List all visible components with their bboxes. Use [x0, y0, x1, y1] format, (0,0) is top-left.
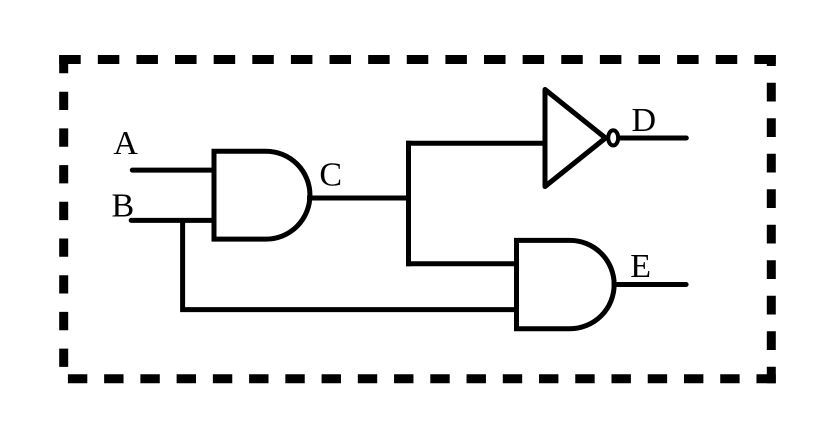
wire C to inverter input [406, 141, 545, 146]
svg-text:B: B [112, 187, 135, 224]
wire C branch vertical [406, 141, 411, 266]
wire B branch to U3 lower input [183, 218, 517, 310]
dashed frame top edge [59, 55, 776, 64]
wire C to U3 upper input [406, 261, 517, 266]
inverter U2 output bubble [608, 130, 618, 145]
AND gate U1 [214, 151, 310, 239]
dashed frame right edge [767, 55, 776, 383]
svg-text:A: A [113, 125, 138, 162]
AND gate U3 [517, 240, 615, 328]
svg-text:C: C [319, 156, 342, 193]
output wire D [620, 136, 687, 141]
dashed frame bottom edge [68, 374, 776, 383]
inverter U2 triangle [545, 90, 606, 187]
svg-text:E: E [630, 248, 651, 285]
input wire A [132, 168, 214, 173]
svg-text:D: D [632, 102, 657, 139]
input wire B [131, 218, 214, 223]
dashed frame left edge [59, 55, 68, 367]
output wire E [614, 282, 686, 287]
wire node C (U1 output) [307, 196, 411, 201]
